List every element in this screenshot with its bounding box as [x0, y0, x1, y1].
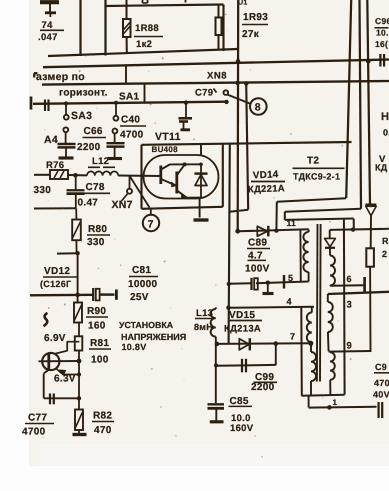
- svg-text:11: 11: [287, 218, 297, 228]
- svg-text:C79: C79: [195, 88, 213, 99]
- svg-text:1R93: 1R93: [243, 12, 268, 23]
- svg-text:U1: U1: [238, 0, 248, 7]
- svg-text:330: 330: [87, 237, 105, 248]
- svg-text:10.8V: 10.8V: [122, 342, 147, 352]
- svg-text:УСТАНОВКА: УСТАНОВКА: [119, 320, 174, 330]
- svg-text:L12: L12: [92, 156, 109, 167]
- svg-text:Т2: Т2: [307, 156, 319, 167]
- svg-text:74: 74: [42, 20, 54, 31]
- svg-text:2200: 2200: [77, 142, 101, 153]
- svg-text:1к2: 1к2: [136, 39, 152, 50]
- svg-text:C78: C78: [86, 182, 105, 193]
- svg-text:7: 7: [290, 332, 295, 342]
- svg-text:C66: C66: [84, 126, 103, 137]
- svg-text:1: 1: [333, 398, 338, 407]
- svg-text:C85: C85: [230, 396, 249, 407]
- svg-text:R80: R80: [88, 224, 107, 235]
- svg-text:1R88: 1R88: [135, 23, 159, 34]
- svg-text:(С126Г: (С126Г: [40, 279, 71, 289]
- svg-text:160V: 160V: [230, 423, 254, 434]
- svg-text:R90: R90: [87, 306, 106, 317]
- svg-text:XN7: XN7: [112, 199, 133, 211]
- svg-text:330: 330: [34, 185, 52, 196]
- svg-text:16(: 16(: [375, 39, 388, 49]
- svg-text:C96: C96: [375, 16, 389, 26]
- svg-text:C9: C9: [375, 362, 387, 372]
- svg-text:R81: R81: [90, 338, 109, 349]
- svg-text:7: 7: [148, 218, 154, 230]
- svg-text:160: 160: [88, 321, 106, 332]
- svg-text:C77: C77: [28, 413, 47, 424]
- svg-text:100V: 100V: [245, 264, 270, 275]
- svg-text:SA3: SA3: [71, 110, 92, 122]
- svg-text:R: R: [382, 236, 389, 246]
- svg-text:НАПРЯЖЕНИЯ: НАПРЯЖЕНИЯ: [121, 332, 186, 342]
- svg-text:9: 9: [347, 341, 353, 352]
- svg-text:горизонт.: горизонт.: [59, 88, 108, 99]
- svg-text:R82: R82: [93, 411, 112, 422]
- svg-text:Н: Н: [381, 111, 389, 123]
- svg-text:VD14: VD14: [253, 169, 279, 181]
- svg-text:6: 6: [347, 274, 352, 284]
- svg-text:470: 470: [94, 425, 112, 436]
- svg-text:25V: 25V: [130, 292, 149, 303]
- svg-text:10.: 10.: [376, 28, 389, 38]
- svg-text:ТДКС9-2-1: ТДКС9-2-1: [293, 172, 340, 182]
- svg-text:C81: C81: [132, 265, 151, 276]
- svg-text:.047: .047: [38, 32, 58, 43]
- svg-text:5: 5: [288, 273, 293, 283]
- svg-text:0.47: 0.47: [78, 198, 99, 209]
- svg-text:27к: 27к: [242, 29, 260, 40]
- svg-text:XN8: XN8: [207, 71, 227, 82]
- svg-text:КД213А: КД213А: [224, 324, 261, 335]
- svg-text:VT11: VT11: [155, 131, 181, 143]
- svg-text:4700: 4700: [22, 427, 46, 438]
- svg-text:C40: C40: [121, 115, 140, 126]
- svg-text:10000: 10000: [128, 279, 157, 290]
- svg-text:8: 8: [255, 102, 261, 114]
- svg-text:VD15: VD15: [229, 310, 255, 321]
- svg-text:C89: C89: [248, 238, 267, 249]
- svg-text:A4: A4: [44, 134, 58, 146]
- svg-text:4: 4: [287, 297, 292, 307]
- svg-text:40V: 40V: [373, 390, 389, 400]
- svg-text:КД: КД: [375, 163, 388, 173]
- svg-text:0,: 0,: [383, 128, 389, 138]
- svg-text:2: 2: [382, 249, 387, 259]
- svg-text:КД221А: КД221А: [248, 183, 285, 195]
- svg-text:3: 3: [347, 300, 353, 311]
- svg-text:4700: 4700: [120, 130, 144, 141]
- svg-text:470: 470: [374, 378, 389, 388]
- svg-text:азмер по: азмер по: [36, 71, 85, 83]
- svg-text:2200: 2200: [251, 382, 275, 393]
- svg-text:6.9V: 6.9V: [44, 333, 66, 344]
- svg-text:VD12: VD12: [44, 266, 70, 277]
- svg-text:SA1: SA1: [119, 92, 139, 103]
- svg-text:BU408: BU408: [152, 145, 179, 154]
